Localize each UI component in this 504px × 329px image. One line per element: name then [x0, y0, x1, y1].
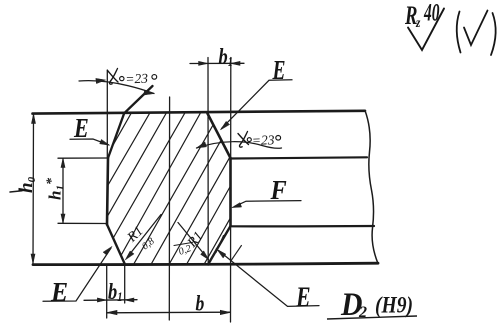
parenthesized check mark: [457, 11, 496, 56]
svg-text:E: E: [272, 56, 286, 86]
dimension b: line with inside arrows: [107, 310, 230, 315]
svg-text:b: b: [196, 292, 205, 316]
dimension b1 top: line and outside arrows: [190, 61, 244, 65]
svg-text:=23: =23: [252, 132, 275, 148]
node: tooth left vertical edge: [107, 158, 108, 225]
svg-text:h0: h0: [16, 176, 38, 193]
svg-text:b1: b1: [219, 43, 233, 70]
surface finish symbol Rz40 check: [408, 9, 444, 51]
dimension h0 line with arrows: [31, 114, 36, 264]
leader E top-left: [70, 139, 110, 145]
leader R1 right: [174, 223, 209, 260]
left edge extension line above body: [106, 70, 108, 158]
bottom b1 right extension: [124, 265, 126, 303]
node: tooth top-right chamfer: [208, 114, 231, 159]
wire: body bottom edge: [33, 263, 378, 264]
wire: wavy break line at right: [365, 111, 378, 264]
short hatch strokes in right corner triangle: [216, 236, 224, 253]
leader E bottom-left: [43, 247, 112, 302]
gamma0 angle arc top-left with arrows: [79, 78, 154, 95]
leader E top-right: [221, 80, 293, 130]
svg-text:=23: =23: [125, 71, 148, 87]
leader F: [232, 201, 301, 208]
extension line x=230.5 full: [230, 58, 232, 323]
leader R1 left: [125, 215, 161, 260]
label Rz40: [404, 0, 440, 30]
left edge extension line below body: [106, 265, 108, 318]
label h0 lead-in stroke: [10, 191, 22, 192]
gamma0 angle arc middle with arrow: [197, 142, 282, 149]
hatch lines inside tooth: [43, 103, 312, 268]
node: tooth bottom-left chamfer: [107, 225, 125, 265]
label gamma0=23 middle: [238, 132, 281, 148]
svg-text:E: E: [295, 283, 310, 313]
centerline of tooth: [168, 97, 170, 320]
wire: body top edge: [33, 111, 366, 114]
label gamma0=23 top-left: [108, 69, 157, 85]
svg-text:F: F: [270, 175, 287, 205]
node: tooth right vertical edge: [229, 158, 232, 226]
stray hatch stroke bottom-right: [231, 246, 242, 262]
svg-text:40: 40: [423, 0, 440, 27]
node: tooth top-left chamfer (rake face E) with construction extension: [108, 86, 153, 158]
wire: underline under D2 (H9): [327, 316, 417, 319]
svg-text:E: E: [73, 114, 89, 144]
svg-text:(Н9): (Н9): [375, 292, 413, 318]
extension line x=208 (top b1 left / corner): [207, 58, 209, 264]
svg-text:E: E: [50, 277, 68, 307]
svg-text:z: z: [415, 15, 420, 30]
wire: right body step line lower: [231, 225, 375, 228]
svg-text:b1: b1: [108, 278, 122, 305]
dimension h1* line with arrows and extension lines: [58, 158, 108, 224]
node: tooth bottom-right chamfer: [208, 226, 231, 265]
wire: right body step line upper: [231, 157, 367, 158]
leader E bottom-right: [217, 249, 319, 306]
dimension b1 bottom: line and outside arrows: [84, 298, 137, 302]
